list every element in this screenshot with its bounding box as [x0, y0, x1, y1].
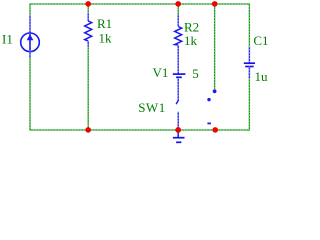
junction dot bottom switch [212, 127, 218, 133]
junction dot top R1 [85, 1, 91, 7]
wire right branch lower [248, 79, 250, 131]
svg-text:1k: 1k [99, 31, 113, 46]
junction dot bottom ground [175, 127, 181, 133]
svg-text:C1: C1 [253, 33, 268, 48]
svg-text:V1: V1 [153, 65, 169, 80]
current source I1 [21, 15, 40, 58]
wire R1 top stub [87, 3, 89, 12]
switch contact pin dot upper [213, 89, 217, 93]
svg-text:I1: I1 [2, 32, 13, 47]
junction dot top R2 [175, 1, 181, 7]
wire right branch upper [248, 3, 250, 46]
wire switch aux branch [214, 3, 216, 89]
svg-text:SW1: SW1 [138, 100, 166, 115]
switch minus mark [207, 122, 211, 124]
switch contact pin dot lower [207, 98, 210, 101]
svg-text:1k: 1k [184, 33, 198, 48]
wire left branch upper [29, 3, 31, 15]
ground [173, 130, 185, 142]
svg-text:1u: 1u [255, 69, 269, 84]
svg-text:5: 5 [192, 66, 199, 81]
wire left branch lower [29, 57, 31, 131]
wire bottom rail [30, 129, 249, 131]
svg-text:R1: R1 [97, 16, 112, 31]
wire R1 bottom [87, 47, 89, 131]
junction dot top switch [212, 1, 218, 7]
wire top rail [30, 3, 249, 5]
switch SW1 [176, 78, 178, 127]
resistor R1 [85, 13, 92, 47]
wire R2 top stub [177, 3, 179, 14]
battery V1 [173, 45, 186, 77]
junction dot bottom R1 [85, 127, 91, 133]
capacitor C1 [244, 47, 255, 79]
resistor R2 [175, 15, 182, 46]
